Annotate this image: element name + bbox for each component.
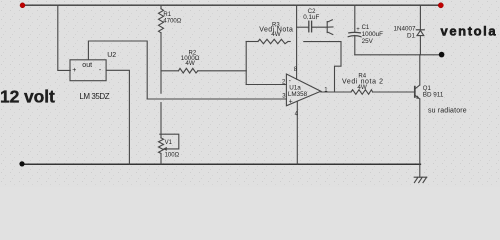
op-amp U1a triangle [286, 74, 320, 106]
wire V1 bottom lead to ground bus [160, 153, 162, 164]
wire top +12V bus [23, 4, 441, 6]
svg-text:LM 35DZ: LM 35DZ [79, 92, 109, 101]
wire feedback node vertical x=246 [245, 42, 247, 85]
svg-text:100Ω: 100Ω [165, 153, 180, 159]
node ground left black terminal [19, 161, 24, 166]
resistor R3 [258, 39, 288, 43]
svg-text:0.1uF: 0.1uF [303, 14, 319, 21]
wire op-amp output to R4 [321, 91, 351, 93]
svg-text:su radiatore: su radiatore [428, 108, 467, 115]
svg-text:U2: U2 [107, 52, 116, 59]
svg-text:out: out [82, 62, 92, 69]
C2 terminal tab electrode [327, 20, 333, 35]
svg-text:BD 911: BD 911 [423, 91, 444, 98]
wire V1 rheostat loop (top terminal to wiper) [160, 134, 179, 149]
svg-text:+: + [356, 27, 360, 33]
resistor R2 [179, 68, 198, 73]
wire op-amp pin2 horizontal [246, 84, 286, 86]
wire collector vertical [419, 55, 421, 85]
svg-text:+: + [289, 98, 293, 105]
wire divider node vertical below crossing to V1 [160, 103, 162, 138]
wire LM35 - pin down to ground bus [106, 70, 129, 164]
svg-text:1N4007: 1N4007 [394, 25, 417, 32]
wire R3 right lead (stops before bus crossing) [288, 41, 290, 43]
svg-text:D1: D1 [407, 32, 416, 39]
wire C1 branch from top bus [354, 5, 356, 32]
svg-text:4700Ω: 4700Ω [163, 18, 181, 24]
svg-text:V1: V1 [165, 140, 173, 146]
svg-text:4W: 4W [357, 84, 367, 91]
wire op-amp pin 4 down to ground bus [296, 101, 298, 164]
svg-text:4W: 4W [271, 31, 281, 38]
node +12V left red terminal [20, 3, 25, 8]
wire op-amp V+ rail from top bus to pin 8 [296, 5, 298, 79]
resistor R1 [159, 9, 164, 33]
svg-text:4W: 4W [185, 60, 195, 67]
svg-text:ventola: ventola [441, 24, 498, 39]
node fan + right red terminal [438, 3, 443, 8]
wire from top bus down to LM35 + pin [58, 5, 71, 70]
wire bottom ground bus [22, 163, 420, 165]
svg-text:12 volt: 12 volt [0, 87, 55, 107]
transistor Q1 [415, 85, 420, 99]
wire R3 left lead [246, 41, 258, 43]
wire LM35 out pin up and over to op-amp +input rail [88, 41, 147, 99]
ground chassis symbol [414, 177, 427, 182]
wire R2 right lead to feedback node [198, 70, 246, 72]
node fan - right black terminal [439, 52, 445, 58]
wire C1 bottom lead [354, 36, 356, 54]
wire R1 top lead from bus [160, 5, 162, 9]
wire op-amp pin3 horizontal [147, 98, 286, 100]
wire feedback line from output jog to R3 (jumps V+ rail) [304, 42, 341, 92]
svg-text:1000uF: 1000uF [362, 31, 384, 38]
svg-text:+: + [72, 67, 76, 74]
wire R2 horizontal with leads [161, 70, 179, 72]
wire D1 anode down to collector [419, 36, 421, 55]
svg-text:25V: 25V [362, 38, 374, 45]
IC U2 LM35 box [70, 60, 106, 81]
wire C2 right lead [312, 26, 327, 28]
wire D1 branch top lead from bus [419, 5, 421, 30]
wire emitter down through bus junction [419, 99, 421, 177]
wire R1 bottom lead down to crossing gap [160, 33, 162, 93]
capacitor C2 plates [308, 21, 310, 32]
resistor R4 [351, 90, 373, 95]
trimmer V1 zigzag [159, 138, 164, 154]
capacitor C1 electrolytic plates [349, 31, 361, 34]
wire R4 right lead to Q1 base [373, 91, 415, 93]
wire fan negative line C1 to fan terminal [355, 54, 442, 56]
svg-text:R1: R1 [163, 12, 171, 18]
svg-text:LM358: LM358 [288, 91, 308, 98]
wire C2 left lead from V+ rail [297, 26, 309, 28]
diode D1 [416, 30, 424, 36]
